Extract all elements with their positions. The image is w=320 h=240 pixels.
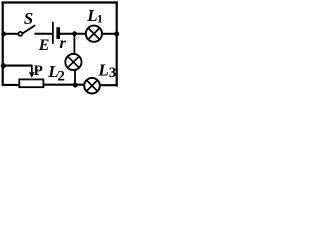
svg-text:1: 1 — [97, 11, 103, 25]
switch S pivot circle — [18, 32, 22, 36]
switch S lever — [23, 25, 36, 33]
battery E short thick plate — [56, 27, 60, 39]
wire battery to node B and on to lamp L1 — [60, 33, 86, 35]
svg-text:P: P — [34, 63, 43, 79]
wire box to node D and lamp L3 — [44, 84, 85, 86]
node D junction dot (bottom rail) — [73, 83, 78, 88]
svg-text:r: r — [60, 35, 67, 52]
svg-text:3: 3 — [109, 65, 117, 81]
wire switch to battery — [35, 33, 53, 35]
lamp L1 — [86, 26, 102, 42]
lamp L2 — [65, 54, 81, 70]
svg-text:L: L — [97, 61, 108, 80]
node A2 junction dot (left rail, slider branch) — [1, 63, 6, 68]
wire bottom rail left segment — [3, 84, 19, 86]
wire right rail — [116, 1, 118, 86]
wire lamp L3 to right rail — [100, 84, 117, 86]
wire lamp L1 to right rail — [103, 33, 118, 35]
node A junction dot (left rail, battery branch) — [1, 32, 6, 37]
wire slider branch — [3, 65, 33, 67]
node C junction dot (right rail) — [114, 31, 119, 36]
resistor P box — [19, 79, 43, 87]
node B junction dot — [72, 31, 77, 36]
lamp L3 — [84, 78, 100, 94]
svg-text:2: 2 — [57, 69, 65, 85]
wire L2 branch lower stub — [74, 70, 76, 86]
wire top rail — [2, 1, 118, 3]
battery E long plate — [52, 22, 54, 44]
wire battery branch: left rail to switch — [3, 33, 18, 35]
wire L2 branch upper stub — [73, 34, 75, 55]
wire left rail — [2, 1, 4, 86]
rheostat P slider arrow — [29, 65, 35, 78]
svg-text:S: S — [24, 9, 33, 28]
svg-text:E: E — [38, 37, 50, 54]
